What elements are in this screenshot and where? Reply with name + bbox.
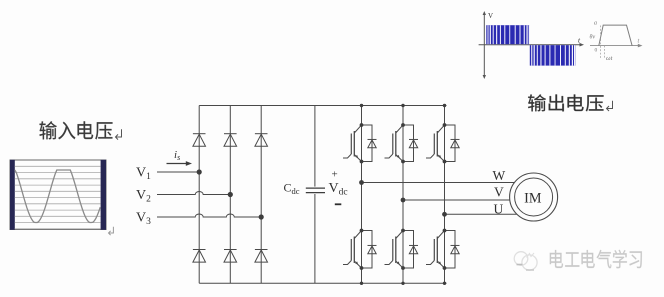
label: output voltage (输出电压) [528,94,612,111]
arrow i_s [167,161,193,166]
svg-text:V: V [494,185,504,200]
IGBT Q3 with freewheel diode [385,125,419,162]
input voltage chart gridlines [15,166,101,229]
PWM negative pulse block [530,45,576,65]
IGBT Q2 with freewheel diode [343,231,377,269]
inset small labels [590,21,613,63]
node V tap [401,198,406,203]
label - (DC bus negative) [335,203,342,205]
svg-text:is: is [174,149,180,162]
node V1 junction [197,169,202,174]
wire phase U [445,213,517,215]
induction motor IM [510,173,558,221]
wire: inverter leg 2 [402,106,404,284]
wire: DC link rail [314,106,316,284]
wire: DC bus top rail [199,105,446,107]
svg-text:θv: θv [590,35,596,41]
rectifier diode D5 (lower) [224,250,237,263]
wire: inverter leg 1 [361,106,363,284]
IGBT Q5 with freewheel diode [426,125,460,162]
node W tap [359,180,364,185]
wire V3 with hops over legs 1,2 [157,214,261,217]
input chart corner return mark [109,227,114,235]
text 输出电压 [528,94,603,111]
svg-text:0: 0 [595,48,598,54]
node: inverter leg junctions on rails [360,104,446,285]
rectifier diode D2 (upper) [224,134,237,147]
input voltage sine trace [15,170,101,223]
label: input voltage (输入电压) [39,121,121,139]
capacitor C_dc plates [306,188,325,193]
wire: inverter leg 3 [444,106,446,284]
wire V1 [157,171,199,173]
rectifier diode D6 (lower) [255,250,268,263]
svg-text:Vdc: Vdc [329,181,348,198]
output voltage V axis [483,11,486,79]
wire phase W [362,182,515,184]
IGBT Q1 with freewheel diode [343,125,377,162]
output voltage detail inset axis [590,44,643,48]
inset dashed guides [601,26,605,60]
svg-text:a: a [594,21,597,27]
wire phase V [403,199,510,201]
svg-text:t: t [578,36,581,45]
PWM positive pulse block [486,25,529,44]
svg-text:W: W [493,168,506,183]
rectifier diode D4 (lower) [193,250,206,263]
IGBT Q4 with freewheel diode [385,231,419,269]
node V2 junction [228,192,233,197]
wire: rectifier leg 1 [198,106,200,284]
svg-text:V2: V2 [136,188,151,205]
svg-text:Cdc: Cdc [284,181,300,197]
watermark logo [514,252,537,270]
wire: DC bus bottom rail [199,282,446,284]
svg-text:t: t [638,38,640,45]
svg-text:U: U [494,201,504,216]
svg-text:V3: V3 [136,211,151,228]
svg-text:ωt: ωt [606,55,613,62]
wire V2 with hop over leg1 [157,192,230,195]
watermark text 电工电气学习 [550,250,642,269]
output voltage t axis [479,43,584,47]
text 输入电压 [39,121,112,139]
node V3 junction [259,214,264,219]
wire: rectifier leg 3 [260,106,262,284]
rectifier diode D1 (upper) [193,134,206,147]
svg-text:V: V [488,12,493,20]
svg-text:V1: V1 [136,166,151,183]
IGBT Q6 with freewheel diode [426,231,460,269]
svg-text:+: + [332,169,338,181]
input voltage chart frame [10,160,106,230]
wire: rectifier leg 2 [229,106,231,284]
svg-text:IM: IM [524,191,542,207]
node U tap [442,212,447,217]
output voltage detail trapezoid [599,25,632,45]
rectifier diode D3 (upper) [255,134,268,147]
